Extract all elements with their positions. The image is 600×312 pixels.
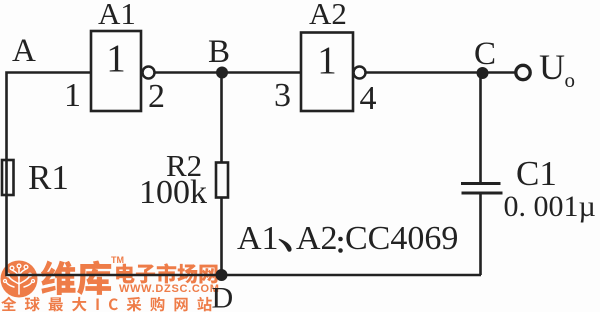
svg-text:0. 001µ: 0. 001µ: [504, 190, 596, 223]
watermark bottom row: [1, 297, 212, 312]
wire: A2 output to terminal: [366, 71, 516, 74]
wire: C vertical to capacitor: [479, 73, 482, 184]
wire: capacitor to bottom: [479, 193, 482, 275]
resistor R2: [216, 163, 228, 198]
svg-text:R1: R1: [28, 158, 69, 197]
svg-text:D: D: [212, 282, 234, 312]
svg-text:2: 2: [148, 78, 165, 115]
svg-text:TM: TM: [111, 255, 124, 265]
colon: [338, 237, 343, 242]
svg-text:1: 1: [64, 77, 81, 114]
svg-text:1: 1: [317, 39, 337, 82]
svg-text:o: o: [565, 68, 576, 92]
capacitor C1 plates: [461, 184, 503, 194]
inverter gate A1 box: [91, 31, 141, 111]
svg-text:C1: C1: [516, 154, 557, 193]
wire: A1 output to A2 input: [155, 71, 302, 74]
watermark logo: [1, 261, 38, 298]
svg-text:B: B: [208, 34, 230, 70]
svg-text:U: U: [539, 47, 565, 87]
inverter bubble A2: [354, 67, 366, 79]
inverter bubble A1: [143, 67, 155, 79]
node B: [216, 67, 228, 79]
wire: node A left rail + left vertical + bottom wire: [7, 73, 482, 276]
svg-text:A2: A2: [309, 0, 347, 31]
resistor R1: [2, 160, 14, 195]
output terminal circle: [516, 65, 530, 79]
svg-text:CC4069: CC4069: [345, 220, 458, 257]
wire: B vertical upper: [220, 73, 223, 164]
svg-text:3: 3: [274, 77, 291, 114]
svg-text:WWW.DZSC.COM: WWW.DZSC.COM: [119, 283, 220, 295]
svg-text:1: 1: [106, 37, 126, 80]
node D junction: [216, 269, 228, 281]
svg-text:A1: A1: [237, 220, 279, 257]
svg-text:C: C: [474, 36, 496, 72]
svg-text:A2: A2: [296, 220, 338, 257]
svg-text:100k: 100k: [139, 174, 207, 211]
inverter gate A2 box: [301, 33, 353, 112]
wire: B vertical lower: [220, 198, 223, 276]
enumeration comma: [279, 239, 292, 252]
svg-text:A1: A1: [98, 0, 136, 31]
watermark 电子市场网: [116, 263, 217, 283]
node C: [477, 67, 489, 79]
svg-text:A: A: [12, 33, 36, 69]
watermark 维库: [41, 260, 111, 295]
svg-text:4: 4: [360, 80, 377, 117]
